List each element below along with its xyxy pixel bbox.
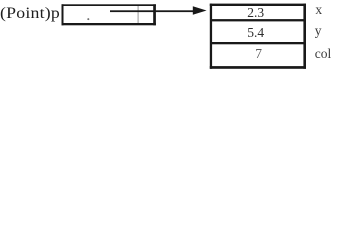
label (Point)p	[0, 6, 60, 22]
field label x	[315, 3, 322, 17]
pointer variable box p : right edge	[153, 4, 156, 25]
object box : top edge	[210, 4, 306, 6]
pointer variable box p : top edge	[62, 4, 156, 6]
object box : left edge	[210, 4, 212, 69]
object box : right edge	[303, 4, 306, 69]
stray dot inside pointer box	[87, 18, 89, 20]
row divider x/y	[212, 19, 305, 21]
pointer variable box p : bottom edge	[62, 23, 156, 25]
field label col	[315, 47, 332, 61]
arrow head	[193, 6, 207, 15]
field value 7	[255, 47, 262, 61]
pointer variable box p : left edge	[62, 4, 64, 25]
object box : bottom edge	[210, 66, 306, 69]
row divider y/col	[212, 42, 305, 44]
faint inner divider of pointer box	[138, 6, 139, 23]
field value 5.4	[247, 26, 264, 40]
arrow shaft	[110, 10, 195, 12]
field label y	[315, 24, 322, 38]
field value 2.3	[247, 6, 264, 20]
